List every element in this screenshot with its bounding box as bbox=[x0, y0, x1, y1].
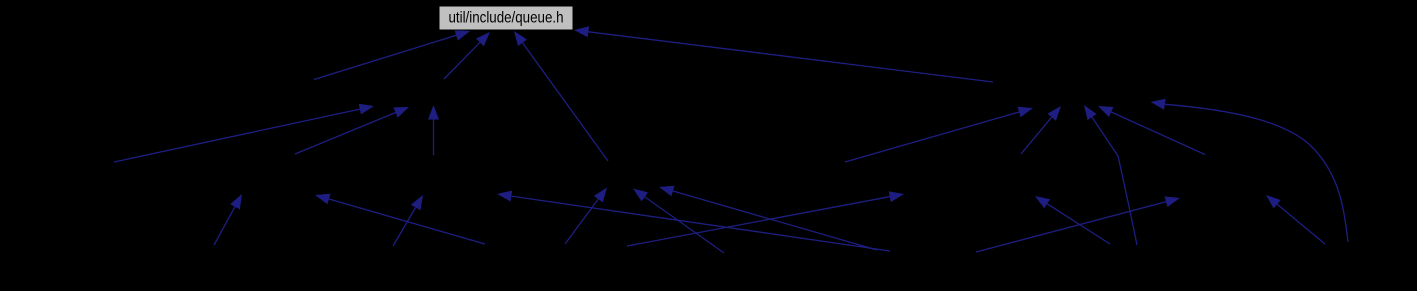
wire E8 bbox=[565, 199, 598, 244]
wire E23 bbox=[1047, 204, 1110, 244]
wire E21 bbox=[1277, 204, 1325, 244]
wire E9 bbox=[645, 197, 724, 253]
wire E14 bbox=[1111, 112, 1205, 155]
wire E20 bbox=[976, 202, 1166, 252]
wire E16 bbox=[214, 207, 235, 245]
node util/include/queue.h bbox=[439, 6, 573, 30]
wire E6 bbox=[295, 113, 396, 155]
wire E4 bbox=[588, 32, 993, 82]
wire E5 bbox=[114, 109, 360, 162]
wire E15 bbox=[1165, 104, 1348, 242]
wire E17 bbox=[329, 199, 485, 244]
wire E7 bbox=[433, 120, 435, 156]
wire E13 bbox=[1092, 117, 1137, 245]
wire E12 bbox=[1021, 117, 1052, 154]
svg-text:util/include/queue.h: util/include/queue.h bbox=[449, 9, 564, 26]
wire E3 bbox=[523, 43, 609, 161]
wire E10 bbox=[673, 191, 877, 250]
wire E2 bbox=[444, 42, 480, 79]
wire E18 bbox=[393, 208, 416, 247]
wire E22 bbox=[511, 196, 890, 251]
wire E11 bbox=[845, 112, 1019, 162]
wire E1 bbox=[314, 35, 456, 79]
wire E19 bbox=[627, 197, 890, 246]
